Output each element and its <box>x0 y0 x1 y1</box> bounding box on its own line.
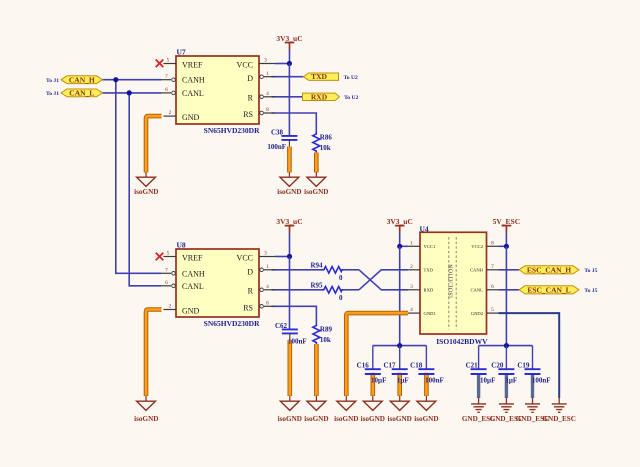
label To U2 (RXD) <box>344 95 358 101</box>
svg-text:C19: C19 <box>517 362 530 370</box>
capacitor C18 <box>410 362 444 385</box>
U4 pin 6 CANL <box>487 289 499 291</box>
svg-text:100nF: 100nF <box>425 377 444 385</box>
svg-text:1: 1 <box>410 240 413 246</box>
port CAN_H <box>61 75 103 84</box>
U8 pin 2 GND <box>164 309 177 311</box>
svg-text:10µF: 10µF <box>480 377 495 385</box>
svg-text:2: 2 <box>169 304 172 310</box>
U7 pin 8 RS <box>260 111 264 115</box>
ground isoGND (C18) <box>414 396 438 423</box>
node VCC junction U7 <box>287 61 292 66</box>
svg-text:0: 0 <box>339 274 343 282</box>
svg-text:RS: RS <box>243 110 253 119</box>
wire R94 to crossover <box>344 269 360 271</box>
svg-text:RXD: RXD <box>311 92 328 101</box>
wire VCC U8 to 3V3 <box>275 256 290 258</box>
wire slate C21 to GND_ESC <box>477 375 480 398</box>
svg-text:isoGND: isoGND <box>304 415 328 423</box>
node VCC1 junction <box>397 244 402 249</box>
svg-text:D: D <box>247 267 253 276</box>
svg-text:10µF: 10µF <box>371 377 386 385</box>
svg-text:CANL: CANL <box>182 282 204 291</box>
wire CAN_H vertical to U8 <box>116 80 161 274</box>
svg-text:R89: R89 <box>320 325 333 333</box>
svg-text:isoGND: isoGND <box>334 415 358 423</box>
svg-text:To J5: To J5 <box>584 268 597 274</box>
wire CAN_L horizontal <box>103 92 162 94</box>
svg-text:CANH: CANH <box>182 269 205 278</box>
wire U4 CANH to port <box>499 269 520 271</box>
label To J5 (ESC_CAN_L) <box>584 288 597 294</box>
svg-text:isoGND: isoGND <box>278 415 302 423</box>
wire C21 top lead <box>478 346 480 369</box>
svg-text:isoGND: isoGND <box>414 415 438 423</box>
svg-text:8: 8 <box>266 107 269 113</box>
node CAN_L junction <box>127 90 132 95</box>
svg-text:SN65HVD230DR: SN65HVD230DR <box>204 126 260 135</box>
SECTION-TOP <box>46 34 359 286</box>
U7 pin 6 CANL <box>161 92 171 94</box>
wire slate C19 to GND_ESC <box>531 375 534 398</box>
U4 pin 4 GND1 <box>408 312 420 314</box>
svg-text:D: D <box>247 74 253 83</box>
wire 5V down to C21-C19 rail <box>505 246 507 345</box>
wire VCC U7 to 3V3 <box>275 63 289 65</box>
node C17 rail junction <box>397 343 402 348</box>
svg-text:CANL: CANL <box>182 89 204 98</box>
wire orange C18 to isoGND <box>424 373 429 396</box>
resistor R89 <box>313 324 333 345</box>
ground isoGND (C62) <box>278 396 302 423</box>
power 3V3_uC (top) <box>276 34 302 64</box>
svg-text:U7: U7 <box>177 47 186 56</box>
svg-text:C18: C18 <box>410 362 423 370</box>
svg-text:R: R <box>248 286 254 295</box>
svg-text:ISOLATION: ISOLATION <box>449 264 455 298</box>
ground GND_ESC (C21) <box>462 398 496 423</box>
wire 3V3 to U4 VCC1 <box>400 245 408 247</box>
wire crossover diagonal down <box>359 270 408 290</box>
wire R95 to crossover <box>344 289 360 291</box>
svg-text:10k: 10k <box>320 144 331 152</box>
svg-text:isoGND: isoGND <box>134 415 158 423</box>
svg-text:isoGND: isoGND <box>361 415 385 423</box>
svg-text:CANH: CANH <box>182 76 205 85</box>
capacitor C16 <box>357 362 387 385</box>
svg-text:7: 7 <box>165 74 168 80</box>
wire orange R86 to isoGND <box>314 153 319 173</box>
svg-text:ISO1042BDWV: ISO1042BDWV <box>436 337 488 346</box>
wire 3V3 down to C16-C18 rail <box>399 246 401 345</box>
U4 isolation barrier dashed lines <box>449 237 456 330</box>
ground isoGND (C16) <box>361 396 385 423</box>
svg-text:4: 4 <box>410 307 413 313</box>
svg-text:7: 7 <box>165 267 168 273</box>
svg-text:To U2: To U2 <box>344 95 358 101</box>
svg-text:1: 1 <box>266 71 269 77</box>
svg-text:SN65HVD230DR: SN65HVD230DR <box>204 319 260 328</box>
svg-text:GND2: GND2 <box>471 311 484 316</box>
svg-text:2: 2 <box>410 264 413 270</box>
wire C21-C19 rail <box>479 345 533 347</box>
svg-text:6: 6 <box>165 280 168 286</box>
U7 pin 1 D <box>260 75 264 79</box>
svg-text:VREF: VREF <box>182 253 203 262</box>
capacitor C38 <box>267 128 297 151</box>
node VCC2 junction <box>504 244 509 249</box>
label To J5 (ESC_CAN_H) <box>584 268 597 274</box>
svg-text:isoGND: isoGND <box>277 188 301 196</box>
capacitor C21 <box>466 362 496 385</box>
svg-text:1: 1 <box>266 264 269 270</box>
svg-text:R95: R95 <box>310 282 323 290</box>
svg-text:TXD: TXD <box>424 268 434 273</box>
wire slate C20 to GND_ESC <box>505 375 508 398</box>
port ESC_CAN_H <box>519 265 579 274</box>
no-connect X on U8 pin 5 <box>156 253 164 261</box>
svg-text:R94: R94 <box>310 262 323 270</box>
resistor R94 <box>310 262 343 282</box>
ground isoGND (R89) <box>304 396 328 423</box>
svg-text:ESC_CAN_L: ESC_CAN_L <box>527 285 570 294</box>
wire orange C16 to isoGND <box>370 373 375 396</box>
wire CAN_H horizontal <box>103 79 162 81</box>
svg-text:100nF: 100nF <box>288 337 307 345</box>
port TXD <box>303 72 338 81</box>
svg-text:C17: C17 <box>383 362 396 370</box>
svg-text:To J1: To J1 <box>46 78 59 84</box>
svg-text:6: 6 <box>165 87 168 93</box>
svg-text:RXD: RXD <box>424 288 434 293</box>
svg-text:3V3_uC: 3V3_uC <box>276 34 302 43</box>
U8 pin 5 VREF <box>164 256 177 258</box>
label To J1 (CAN_L) <box>46 91 59 97</box>
port CAN_L <box>61 89 103 98</box>
label To U2 (TXD) <box>344 75 358 81</box>
svg-text:C21: C21 <box>466 362 479 370</box>
ground GND_ESC (C19) <box>516 398 550 423</box>
svg-text:5V_ESC: 5V_ESC <box>493 217 521 226</box>
svg-text:6: 6 <box>491 284 494 290</box>
U7 pin 3 VCC <box>259 63 275 65</box>
wire U8 R to R95 <box>272 289 323 291</box>
wire orange C62 to isoGND <box>287 340 292 396</box>
wire C16 top lead <box>372 346 374 369</box>
svg-text:To J5: To J5 <box>584 288 597 294</box>
node C20 rail junction <box>504 343 509 348</box>
port RXD <box>303 92 340 101</box>
svg-text:5: 5 <box>167 251 170 257</box>
svg-text:C16: C16 <box>357 362 370 370</box>
wire 3V3 down to C38 <box>288 64 290 136</box>
svg-text:0: 0 <box>339 294 343 302</box>
svg-text:3: 3 <box>264 58 267 64</box>
svg-text:ESC_CAN_H: ESC_CAN_H <box>527 265 571 274</box>
svg-text:8: 8 <box>491 240 494 246</box>
svg-text:100nF: 100nF <box>267 143 286 151</box>
U4 pin 7 CANH <box>487 269 499 271</box>
svg-text:3: 3 <box>264 251 267 257</box>
svg-text:CAN_L: CAN_L <box>69 89 94 98</box>
svg-text:U4: U4 <box>420 224 429 233</box>
svg-text:100nF: 100nF <box>532 377 551 385</box>
svg-text:5: 5 <box>491 307 494 313</box>
wire 5V to U4 VCC2 <box>499 245 507 247</box>
ground isoGND (U7 GND) <box>134 172 158 196</box>
ground isoGND (C38) <box>277 172 301 196</box>
U4 pin 3 RXD <box>408 289 420 291</box>
svg-text:4: 4 <box>266 91 269 97</box>
U4 pin 2 TXD <box>408 269 420 271</box>
label To J1 (CAN_H) <box>46 78 59 84</box>
svg-text:VCC2: VCC2 <box>471 244 483 249</box>
wire C18 top lead <box>425 346 427 369</box>
wire orange C17 to isoGND <box>397 373 402 396</box>
wire U4 GND2 to GND_ESC <box>499 313 560 398</box>
wire C19 top lead <box>532 346 534 369</box>
wire U8 RS to R89 <box>272 306 317 323</box>
ground isoGND (C17) <box>388 396 412 423</box>
U7 pin 2 GND <box>164 115 177 117</box>
wire orange R89 to isoGND <box>314 344 319 396</box>
svg-text:GND1: GND1 <box>424 311 437 316</box>
svg-text:3: 3 <box>410 284 413 290</box>
U8 pin 1 D <box>260 268 264 272</box>
U4 pin 8 VCC2 <box>487 245 499 247</box>
svg-text:isoGND: isoGND <box>388 415 412 423</box>
wire orange U8 GND to isoGND <box>146 310 162 397</box>
svg-text:GND: GND <box>182 306 200 315</box>
U7 pin 7 CANH <box>161 79 171 81</box>
wire CAN_L vertical to U8 <box>129 93 161 286</box>
U4 pin 1 VCC1 <box>408 245 420 247</box>
svg-text:isoGND: isoGND <box>304 188 328 196</box>
capacitor C17 <box>383 362 408 385</box>
svg-text:3V3_uC: 3V3_uC <box>276 217 302 226</box>
svg-text:C38: C38 <box>271 128 284 136</box>
power 5V_ESC <box>493 217 521 246</box>
wire orange U7 GND to isoGND <box>146 116 162 172</box>
svg-text:1µF: 1µF <box>505 377 517 385</box>
svg-text:isoGND: isoGND <box>134 188 158 196</box>
U4 pin 5 GND2 <box>487 312 499 314</box>
svg-text:GND_ESC: GND_ESC <box>516 415 550 423</box>
IC U8 SN65HVD230DR <box>156 240 275 327</box>
svg-text:R86: R86 <box>320 133 333 141</box>
svg-text:CANL: CANL <box>470 288 483 293</box>
wire RS to R86 <box>272 113 317 132</box>
svg-text:10k: 10k <box>320 336 331 344</box>
svg-text:To U2: To U2 <box>344 75 358 81</box>
wire R to RXD port <box>272 96 303 98</box>
wire C17 top lead <box>399 346 401 369</box>
svg-text:GND: GND <box>182 113 200 122</box>
node CAN_H junction <box>113 77 118 82</box>
wire D to TXD port <box>272 76 304 78</box>
svg-text:2: 2 <box>169 110 172 116</box>
U8 pin 3 VCC <box>259 256 275 258</box>
svg-text:7: 7 <box>491 264 494 270</box>
svg-text:VCC: VCC <box>237 61 253 70</box>
capacitor C20 <box>491 362 517 385</box>
U8 pin 7 CANH <box>161 272 171 274</box>
svg-text:1µF: 1µF <box>397 377 409 385</box>
wire U8 D to R94 <box>272 269 323 271</box>
SECTION-BOTTOM <box>134 217 597 423</box>
svg-text:R: R <box>248 93 254 102</box>
svg-text:VCC: VCC <box>237 254 253 263</box>
svg-text:RS: RS <box>243 304 253 313</box>
resistor R95 <box>310 282 343 302</box>
U7 pin 5 VREF <box>164 63 177 65</box>
power 3V3_uC (above U4) <box>387 217 413 246</box>
svg-text:8: 8 <box>266 300 269 306</box>
wire orange U4 GND1 to isoGND <box>346 313 408 396</box>
ground isoGND (U4 GND1) <box>334 396 358 423</box>
ground GND_ESC (C20) <box>490 398 524 423</box>
svg-text:5: 5 <box>167 58 170 64</box>
U7 pin 4 R <box>260 95 264 99</box>
capacitor C19 <box>517 362 550 385</box>
svg-text:TXD: TXD <box>311 72 327 81</box>
U8 pin 4 R <box>260 288 264 292</box>
no-connect X on U7 pin 5 <box>156 60 164 68</box>
node VCC junction U8 <box>287 254 292 259</box>
IC U7 SN65HVD230DR <box>156 47 275 135</box>
wire U4 CANL to port <box>499 289 520 291</box>
IC U4 ISO1042BDWV <box>408 224 499 345</box>
svg-text:VREF: VREF <box>182 60 203 69</box>
ground GND_ESC (GND2 wire) <box>542 398 576 423</box>
svg-text:To J1: To J1 <box>46 91 59 97</box>
svg-text:4: 4 <box>266 284 269 290</box>
svg-text:U8: U8 <box>177 240 186 249</box>
svg-text:C20: C20 <box>491 362 504 370</box>
port ESC_CAN_L <box>519 285 579 294</box>
capacitor C62 <box>275 322 307 345</box>
wire C16-C18 rail <box>373 345 427 347</box>
svg-text:CAN_H: CAN_H <box>69 75 95 84</box>
svg-text:VCC1: VCC1 <box>424 244 436 249</box>
wire orange C38 to isoGND <box>287 147 292 173</box>
ground isoGND (R86) <box>304 172 328 196</box>
wire C20 top lead <box>505 346 507 369</box>
power 3V3_uC (above U8) <box>276 217 302 257</box>
svg-text:CANH: CANH <box>470 268 484 273</box>
wire crossover diagonal up <box>359 270 408 290</box>
svg-text:C62: C62 <box>275 322 288 330</box>
svg-text:3V3_uC: 3V3_uC <box>387 217 413 226</box>
ground isoGND (U8 GND) <box>134 396 158 423</box>
resistor R86 <box>313 132 333 153</box>
U8 pin 6 CANL <box>161 285 171 287</box>
U8 pin 8 RS <box>260 305 264 309</box>
wire 3V3 down to C62 <box>289 257 291 330</box>
